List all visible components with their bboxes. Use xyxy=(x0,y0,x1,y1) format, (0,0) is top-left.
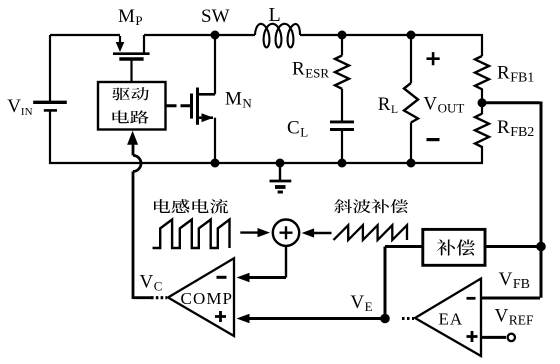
resistor RESR xyxy=(335,56,349,89)
wire EA minus input to feedback line xyxy=(481,297,540,300)
op-amp EA triangle xyxy=(415,279,481,357)
arrowhead into COMP plus input xyxy=(237,314,250,324)
battery VIN long plate xyxy=(33,101,67,104)
wire RFB1 to RFB2 segment xyxy=(481,89,483,115)
wire feedback vertical right side (thick) xyxy=(540,102,543,298)
compensation box 补偿 xyxy=(423,229,485,265)
waveform inductor current xyxy=(153,220,230,249)
wire top rail to RL xyxy=(410,35,412,83)
capacitor CL bottom plate xyxy=(330,128,354,131)
EA minus input marker xyxy=(467,297,476,300)
label drive box line2 电路 xyxy=(112,110,148,123)
wire summing output to COMP minus xyxy=(249,276,287,279)
svg-text:L: L xyxy=(269,4,281,26)
node FB junction dot xyxy=(478,98,487,107)
transistor MN channel bar xyxy=(196,88,199,125)
wire compensation box to feedback line xyxy=(485,245,539,248)
ground bar 2 xyxy=(275,185,286,189)
ground bar 3 xyxy=(278,191,283,194)
svg-text:COMP: COMP xyxy=(181,289,234,308)
waveform slope compensation sawtooth xyxy=(334,225,408,240)
transistor MP drain lead xyxy=(143,35,145,54)
wire right rail top (to RFB1) xyxy=(481,34,483,56)
summing junction circle xyxy=(273,220,299,246)
wire RL to bottom rail xyxy=(410,123,412,164)
svg-text:VIN: VIN xyxy=(7,96,32,118)
svg-text:RESR: RESR xyxy=(292,58,329,80)
transistor MP gate bar xyxy=(119,57,143,61)
EA output dotted segment xyxy=(402,317,414,320)
capacitor CL top plate xyxy=(330,120,354,123)
COMP minus input marker xyxy=(217,276,227,279)
wire MP gate to drive box xyxy=(130,61,132,83)
wire hop over bottom rail xyxy=(133,155,141,171)
wire FB node to right (thick) xyxy=(482,101,540,104)
wire SW node to MN drain xyxy=(214,35,216,94)
svg-text:EA: EA xyxy=(439,310,464,329)
arrowhead into drive box bottom xyxy=(127,131,138,145)
wire drive box to MN gate xyxy=(166,104,191,107)
arrowhead into COMP minus input xyxy=(237,273,250,283)
wire RFB2 to bottom rail xyxy=(481,146,483,163)
label drive box line1 驱动 xyxy=(112,87,149,100)
wire VE to COMP plus input (thick) xyxy=(249,317,384,320)
wire EA plus input to VREF terminal xyxy=(481,336,506,339)
wire compensation drop to VE node xyxy=(384,247,387,319)
svg-text:VREF: VREF xyxy=(495,306,534,328)
junction dot MN source on bottom rail xyxy=(211,159,220,168)
node VE junction dot xyxy=(380,314,390,324)
label minus sign VOUT xyxy=(427,138,440,141)
summing junction plus sign xyxy=(280,226,293,239)
transistor MP source lead with arrow xyxy=(119,36,121,43)
COMP plus input marker xyxy=(215,311,226,322)
svg-text:CL: CL xyxy=(287,118,308,140)
arrowhead into summing junction right xyxy=(302,228,315,237)
wire bottom ground rail xyxy=(49,162,483,164)
label plus sign VOUT xyxy=(427,52,440,65)
ground stub xyxy=(279,163,281,181)
svg-text:MN: MN xyxy=(225,89,252,111)
wire left rail (VIN) xyxy=(49,35,51,164)
svg-text:RFB2: RFB2 xyxy=(497,117,534,140)
junction dot compensation tap xyxy=(536,242,546,252)
transistor MN drain lead xyxy=(198,93,215,96)
op-amp COMP triangle xyxy=(168,258,234,336)
arrowhead into summing junction left xyxy=(258,228,271,237)
inductor L xyxy=(255,24,300,48)
node junction dot RESR branch top xyxy=(338,31,347,40)
COMP output dotted segment xyxy=(151,296,167,299)
junction dot RL branch bottom xyxy=(407,159,416,168)
resistor RL xyxy=(404,83,418,123)
node junction dot RL branch top xyxy=(407,31,416,40)
wire compensation box to VE node xyxy=(385,245,423,248)
wire top rail VIN to MP source xyxy=(50,34,120,36)
svg-text:VC: VC xyxy=(140,271,163,293)
node SW junction dot xyxy=(211,31,220,40)
resistor RFB1 xyxy=(475,56,489,89)
svg-text:MP: MP xyxy=(118,6,143,28)
ground bar 1 xyxy=(270,180,292,183)
label inductor current 电感电流 xyxy=(154,199,228,213)
wire COMP output to left corner xyxy=(133,296,152,299)
label compensation box 补偿 xyxy=(437,239,475,255)
svg-text:VFB: VFB xyxy=(499,269,530,292)
resistor RFB2 xyxy=(475,114,489,147)
transistor MN gate bar xyxy=(190,94,193,119)
wire RESR to CL xyxy=(341,89,343,121)
wire hop to drive box arrow xyxy=(132,144,135,155)
wire CL to bottom rail xyxy=(341,131,343,163)
terminal VREF open circle xyxy=(508,334,515,341)
svg-text:VE: VE xyxy=(350,292,372,314)
svg-text:RFB1: RFB1 xyxy=(497,63,534,86)
wire sawtooth to summing junction xyxy=(314,232,332,234)
EA plus input marker xyxy=(467,331,478,342)
wire top rail inductor to right corner xyxy=(300,34,482,36)
svg-text:VOUT: VOUT xyxy=(423,93,464,115)
wire summing output down xyxy=(285,246,287,278)
svg-text:RL: RL xyxy=(378,94,398,116)
transistor MN source lead with arrow xyxy=(198,116,213,119)
ground junction dot xyxy=(276,159,285,168)
junction dot CL branch bottom xyxy=(338,159,347,168)
wire vertical up from VC corner to hop xyxy=(132,171,135,299)
drive circuit box xyxy=(98,82,166,130)
wire top rail to RESR xyxy=(341,35,343,56)
wire top rail MP drain to inductor xyxy=(144,34,255,36)
transistor MP channel bar xyxy=(113,52,150,55)
svg-text:SW: SW xyxy=(201,6,230,27)
label slope compensation 斜波补偿 xyxy=(334,199,408,213)
wire waveform to summing junction xyxy=(240,231,258,233)
wire MN source to bottom rail xyxy=(214,118,216,163)
battery VIN short plate xyxy=(44,109,57,112)
